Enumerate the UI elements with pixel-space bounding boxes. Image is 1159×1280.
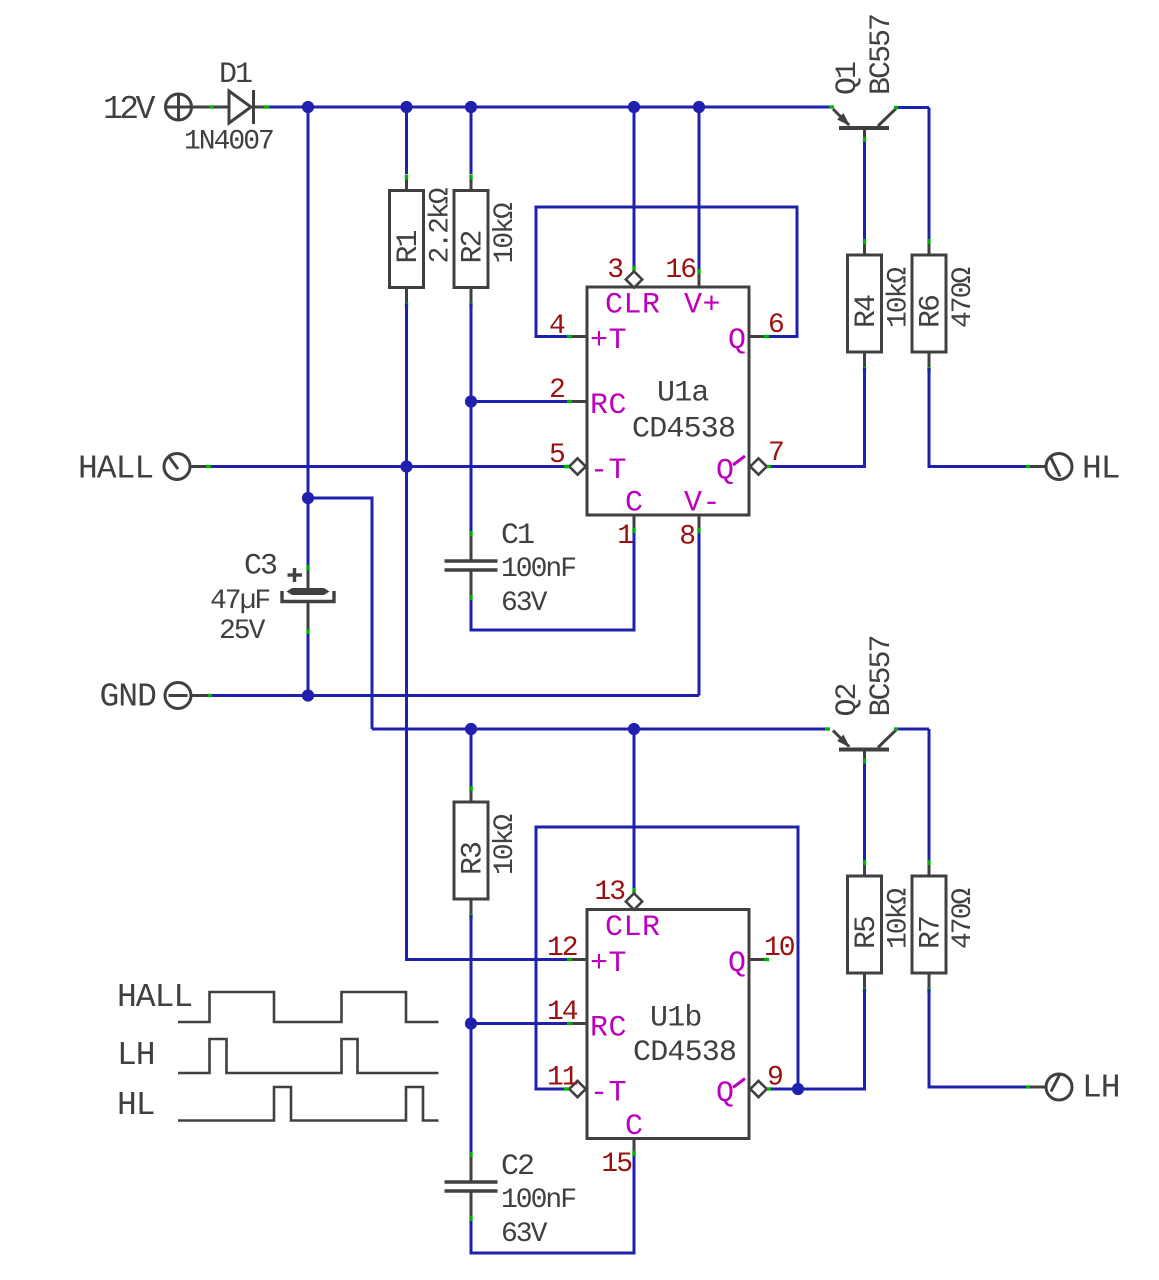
svg-text:CD4538: CD4538 — [632, 413, 735, 447]
resistor R7 — [912, 860, 979, 993]
connector GND — [165, 683, 191, 709]
svg-text:25V: 25V — [219, 616, 266, 647]
svg-text:LH: LH — [1082, 1070, 1120, 1107]
svg-text:3: 3 — [607, 255, 623, 286]
svg-text:12V: 12V — [103, 91, 156, 128]
svg-text:Q: Q — [716, 455, 735, 489]
svg-text:1N4007: 1N4007 — [184, 127, 273, 158]
resistor R3 — [454, 786, 521, 919]
svg-text:CLR: CLR — [605, 911, 661, 945]
wire R1 bottom to HALL line — [405, 304, 408, 467]
transistor Q2 BC557 — [831, 636, 899, 763]
U1a pin 4 +T stub — [567, 335, 587, 338]
capacitor C2 — [445, 1150, 576, 1250]
U1a pin 1 C stub — [633, 515, 636, 533]
green mark rail to Q1 emitter — [829, 105, 834, 108]
green mark rail to Q2 emitter — [825, 727, 830, 730]
wire C2 bottom to pin 15 C — [471, 1156, 634, 1253]
node junction lower rail R3 — [465, 723, 477, 735]
svg-text:V+: V+ — [684, 289, 721, 323]
svg-text:8: 8 — [679, 522, 694, 553]
svg-text:R3: R3 — [457, 842, 491, 875]
svg-text:15: 15 — [601, 1149, 632, 1180]
svg-text:16: 16 — [665, 255, 695, 286]
node junction GND x308 — [302, 689, 314, 701]
svg-text:HL: HL — [117, 1087, 155, 1124]
wire R7 bottom to LH connector — [929, 989, 1046, 1087]
wire RC b node down to C2 — [470, 1024, 473, 1153]
wire Q2 base down to R5 — [863, 764, 866, 861]
svg-text:RC: RC — [590, 1012, 627, 1046]
wire GND up to pin 8 V- — [698, 515, 701, 696]
U1a pin 3 CLR diamond — [626, 271, 642, 287]
wire C1 bottom to pin 1 C — [471, 533, 634, 630]
transistor Q1 BC557 — [831, 15, 899, 142]
svg-text:10kΩ: 10kΩ — [884, 888, 915, 949]
capacitor C1 — [445, 519, 576, 619]
U1a pin 5 -T diamond — [564, 458, 586, 474]
wire 12V top rail — [269, 106, 833, 109]
node junction rail R2 — [465, 101, 477, 113]
op-amp U1a CD4538 monostable body — [587, 287, 749, 515]
wire pin 7 Q' to R4 bottom — [771, 368, 865, 467]
wire GND rail — [191, 694, 700, 697]
wire R3 bottom to RC b node — [470, 915, 473, 1024]
svg-text:HALL: HALL — [78, 451, 153, 488]
svg-text:Q: Q — [716, 1077, 735, 1111]
green mark pin3 wire end — [632, 266, 635, 271]
U1b pin 12 +T stub — [572, 958, 587, 961]
U1b pin 13 CLR diamond — [626, 893, 642, 909]
svg-text:R5: R5 — [850, 916, 884, 949]
svg-text:C1: C1 — [501, 519, 534, 553]
svg-text:LH: LH — [117, 1037, 155, 1074]
svg-text:100nF: 100nF — [501, 554, 575, 585]
svg-text:470Ω: 470Ω — [948, 267, 979, 328]
U1b pin name Q' — [716, 1077, 745, 1111]
svg-text:-T: -T — [590, 454, 627, 488]
connector 12V — [166, 94, 192, 120]
svg-text:2.2kΩ: 2.2kΩ — [426, 187, 457, 263]
wire Q1 base down to R4 — [863, 142, 866, 239]
svg-text:Q1: Q1 — [831, 62, 865, 95]
node junction HALL R1 — [400, 460, 412, 472]
svg-text:C: C — [625, 1110, 644, 1144]
wire branch to lower section — [308, 498, 372, 729]
U1b pin 10 Q stub — [749, 958, 769, 961]
svg-text:HALL: HALL — [117, 979, 192, 1016]
connector HL — [1046, 454, 1072, 480]
svg-text:C3: C3 — [244, 550, 277, 584]
timing diagram HALL waveform — [178, 992, 439, 1022]
svg-text:Q: Q — [728, 324, 747, 358]
svg-text:R4: R4 — [850, 295, 884, 328]
svg-text:+T: +T — [590, 947, 627, 981]
wire lower rail down to pin 13 CLR — [633, 729, 636, 893]
U1b pin 11 -T diamond — [564, 1081, 586, 1097]
U1b pin 15 C stub — [633, 1139, 636, 1157]
green mark R3 top — [469, 786, 472, 791]
wire rail down to R2 — [470, 107, 473, 174]
connector HALL — [164, 454, 190, 480]
svg-text:10kΩ: 10kΩ — [884, 267, 915, 328]
svg-text:R2: R2 — [457, 231, 491, 263]
svg-text:BC557: BC557 — [865, 636, 899, 716]
svg-text:13: 13 — [594, 877, 625, 908]
U1a pin 2 RC stub — [567, 400, 587, 403]
svg-text:D1: D1 — [219, 58, 252, 92]
wire rail down to pin 16 V+ — [698, 107, 701, 274]
wire RC node to pin 2 — [471, 400, 567, 403]
node junction rail pin3 — [628, 101, 640, 113]
wire R6 bottom to HL connector — [929, 368, 1047, 467]
wire Q' to -T feedback loop U1b — [536, 827, 798, 1089]
svg-text:RC: RC — [590, 389, 627, 423]
wire R2 bottom to RC node — [470, 304, 473, 402]
node junction Q' loop R5 — [792, 1083, 804, 1095]
node junction RC b — [465, 1017, 477, 1029]
wire 12V connector to diode anode — [191, 106, 229, 109]
node junction RC R2 C1 — [465, 395, 477, 407]
svg-text:7: 7 — [768, 438, 783, 469]
U1b pin 14 RC stub — [567, 1022, 587, 1025]
wire pin 9 Q' line to R5 bottom — [771, 989, 865, 1089]
svg-text:47µF: 47µF — [210, 586, 269, 617]
svg-text:-T: -T — [590, 1077, 627, 1111]
svg-text:12: 12 — [547, 933, 577, 964]
svg-text:R6: R6 — [915, 295, 949, 328]
resistor R5 — [848, 860, 915, 993]
wire rail down to R1 — [405, 107, 408, 174]
wire Q1 collector to R6 — [894, 108, 929, 240]
svg-text:10: 10 — [764, 933, 795, 964]
node junction rail x308 — [302, 101, 314, 113]
svg-text:C: C — [625, 487, 644, 521]
svg-text:63V: 63V — [501, 588, 548, 619]
svg-text:CD4538: CD4538 — [633, 1036, 736, 1070]
svg-text:R1: R1 — [392, 230, 426, 263]
U1a pin 6 Q stub — [749, 335, 769, 338]
svg-text:U1b: U1b — [650, 1002, 702, 1036]
svg-text:R7: R7 — [915, 917, 949, 949]
wire HALL node down to U1b +T — [407, 467, 568, 960]
U1b pin 9 Q' diamond — [750, 1081, 771, 1097]
node junction lower rail pin13 — [628, 723, 640, 735]
U1a pin 7 Q' diamond — [750, 458, 771, 474]
wire Q to +T feedback loop U1a — [536, 207, 797, 337]
diode D1 — [229, 90, 269, 124]
green mark +T b wire end — [567, 958, 572, 961]
svg-text:BC557: BC557 — [865, 15, 899, 95]
resistor R6 — [912, 239, 979, 372]
svg-text:10kΩ: 10kΩ — [490, 814, 521, 875]
connector LH — [1046, 1074, 1072, 1100]
timing diagram HL waveform — [178, 1087, 439, 1121]
wire C3 bottom to GND rail — [307, 634, 310, 696]
svg-text:1: 1 — [617, 521, 633, 552]
wire Q2 collector to R7 — [894, 729, 929, 860]
svg-text:V-: V- — [684, 487, 721, 521]
svg-text:470Ω: 470Ω — [948, 888, 979, 949]
svg-text:U1a: U1a — [657, 377, 709, 411]
wire 12V vertical x308 down to C3 — [307, 107, 310, 570]
svg-text:63V: 63V — [501, 1219, 548, 1250]
svg-text:+T: +T — [590, 324, 627, 358]
svg-text:100nF: 100nF — [501, 1185, 575, 1216]
svg-text:GND: GND — [100, 679, 157, 716]
wire RC b node to pin 14 — [471, 1022, 567, 1025]
resistor R4 — [848, 239, 915, 372]
svg-text:Q: Q — [728, 947, 747, 981]
timing diagram LH waveform — [178, 1039, 439, 1073]
node junction rail pin16 — [693, 101, 705, 113]
resistor R1 — [390, 175, 457, 308]
wire HALL to -T pin 5 — [190, 465, 569, 468]
U1a pin name Q' — [716, 455, 745, 489]
wire lower supply rail — [372, 728, 829, 731]
wire rail down to pin 3 CLR — [633, 107, 636, 266]
U1a pin 8 V- stub — [698, 515, 701, 528]
node junction branch to lower rail — [302, 492, 314, 504]
svg-text:CLR: CLR — [605, 289, 661, 323]
capacitor C3 polarized — [282, 568, 334, 634]
U1a pin 16 stub — [698, 274, 701, 287]
svg-text:5: 5 — [549, 440, 565, 471]
wire lower rail down to R3 — [470, 729, 473, 786]
svg-text:10kΩ: 10kΩ — [490, 202, 521, 263]
node junction rail R1 — [400, 101, 412, 113]
svg-text:Q2: Q2 — [831, 684, 865, 716]
op-amp U1b CD4538 monostable body — [587, 910, 749, 1139]
wire RC node down to C1 — [470, 402, 473, 532]
resistor R2 — [454, 175, 521, 308]
svg-text:C2: C2 — [501, 1150, 533, 1184]
svg-text:HL: HL — [1082, 451, 1120, 488]
